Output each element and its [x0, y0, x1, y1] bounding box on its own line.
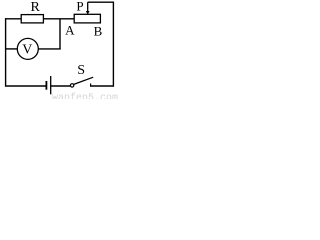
svg-text:A: A	[65, 23, 75, 38]
wire: node A drop to voltmeter branch	[59, 19, 61, 49]
svg-text:V: V	[22, 43, 32, 58]
svg-text:R: R	[31, 0, 41, 15]
potentiometer P body	[74, 14, 100, 23]
wire: bottom-left segment to battery	[5, 85, 46, 87]
svg-text:B: B	[94, 23, 103, 38]
svg-text:P: P	[76, 0, 83, 14]
wire: top-left segment from left rail to resistor	[5, 18, 22, 20]
potentiometer wiper arrow	[87, 2, 89, 11]
wire: left rail to voltmeter	[5, 48, 18, 50]
battery cell: short plate (negative)	[45, 81, 47, 90]
svg-text:S: S	[77, 63, 85, 78]
wire: battery to switch	[51, 85, 71, 87]
wire: resistor to potentiometer (through node A)	[43, 18, 74, 20]
resistor R1 body	[21, 15, 43, 23]
wire: right rail	[112, 2, 114, 87]
battery cell: long plate (positive)	[50, 76, 52, 94]
wire: switch to bottom-right corner	[90, 85, 114, 87]
switch right contact tick	[90, 84, 92, 87]
switch S lever (open)	[74, 77, 94, 84]
switch S pivot circle	[70, 84, 73, 87]
wire: wiper to top-right corner	[88, 1, 114, 3]
wire: voltmeter to node A drop	[38, 48, 60, 50]
svg-text:wanfen5.com: wanfen5.com	[52, 92, 118, 99]
voltmeter V1 circle	[17, 38, 38, 59]
wire: left rail	[5, 18, 7, 86]
